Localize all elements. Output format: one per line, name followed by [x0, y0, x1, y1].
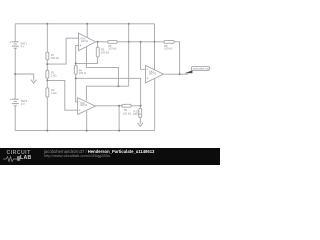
wire left column mid [14, 48, 16, 99]
caption line 1 [44, 149, 154, 154]
wire lower divider tap to op-amp3 plus [47, 80, 77, 110]
svg-text:100 kΩ: 100 kΩ [101, 50, 109, 54]
node rail / R3 [46, 130, 48, 132]
wire node B right to op-amp2 plus tap [76, 78, 141, 105]
svg-text:LM741: LM741 [80, 105, 88, 107]
node R9/R10 plus tap [140, 105, 142, 107]
CircuitLab logo [7, 150, 31, 156]
caption line 2 [44, 153, 110, 158]
svg-text:100 kΩ: 100 kΩ [133, 112, 141, 116]
wire R3 bottom lead to rail [46, 97, 48, 131]
wire R10 bottom lead [139, 118, 141, 122]
node rail / OA V- [86, 130, 88, 132]
wire op-amp2 output [163, 73, 188, 75]
wire R9 to plus-tap node [131, 105, 140, 107]
wire R4 bottom to node B [75, 74, 77, 78]
node OA2 output [179, 73, 181, 75]
svg-text:LM741: LM741 [149, 74, 157, 76]
svg-text:100 kΩ: 100 kΩ [123, 111, 131, 115]
svg-text:100 kΩ: 100 kΩ [108, 47, 116, 51]
resistor R3 [46, 88, 49, 97]
wire node B to op-amp3 minus [76, 78, 78, 102]
wire R8 right to output node [174, 42, 179, 74]
svg-text:1 kΩ: 1 kΩ [51, 91, 56, 95]
wire op-amp3(lower) V- stub to rail [86, 111, 88, 131]
node OA1 output / R5 [97, 41, 99, 43]
wire R1-R2 link [46, 60, 48, 71]
op-amp OA3 input polarity marks [147, 69, 149, 79]
node B [75, 77, 77, 79]
resistor R4 (node A to node B) [74, 66, 77, 75]
ground (battery midpoint) [31, 80, 36, 84]
wire R6 to R8 [117, 41, 164, 43]
wire top rail [15, 23, 154, 25]
node wire / minus tap crossing 1 [128, 41, 130, 43]
resistor R1 [46, 52, 49, 60]
wire junction down to bottom rail [118, 106, 120, 131]
resistor R2 [46, 70, 49, 78]
node divider mid upper [46, 63, 48, 65]
wire left column lower [14, 106, 16, 131]
wire divider mid tap to op-amp1 minus [47, 38, 78, 64]
op-amp OA1 [79, 33, 96, 51]
battery BAT2 [10, 99, 19, 106]
node divider mid lower [46, 79, 48, 81]
wire node A to R4 top [75, 63, 77, 65]
resistor R8 (feedback of OA2) [164, 40, 174, 43]
svg-text:200 Ω: 200 Ω [79, 71, 86, 75]
svg-text:9 V: 9 V [21, 45, 25, 49]
node wire / V+ stub crossing [154, 41, 156, 43]
wire op-amp2 V- stub to bottom rail [154, 79, 156, 131]
wire op-amp1 plus input stub [76, 45, 79, 63]
wire R1 top lead from rail [46, 24, 48, 52]
output flag [185, 67, 210, 74]
svg-text:100 kΩ: 100 kΩ [164, 47, 172, 51]
svg-text:LM741: LM741 [81, 41, 89, 43]
op-amp OA2 input polarity marks [79, 102, 81, 111]
wire supply branch from top rail down [128, 24, 130, 86]
svg-text:1 kΩ: 1 kΩ [51, 74, 56, 78]
wire bottom rail [15, 130, 155, 132]
ground (below R10) [138, 123, 143, 127]
wire plus-tap node to R10 top [139, 106, 141, 109]
node supply y86 junction [117, 85, 119, 87]
resistor R10 (to ground) [139, 108, 142, 117]
wire node A horizontal to R5 bottom [76, 57, 98, 63]
node A [75, 62, 77, 64]
wire op-amp2 minus tap [141, 42, 146, 70]
wire R5 top lead to output node [97, 42, 99, 47]
wire ground tap from battery midpoint [15, 74, 34, 78]
wire R2-R3 link [46, 78, 48, 88]
resistor R6 (series, OA1 out) [108, 40, 118, 43]
node top rail / OA1 V+ [86, 23, 88, 25]
node lower OA output / rail drop [118, 105, 120, 107]
svg-text:100 kΩ: 100 kΩ [51, 56, 59, 60]
wire op-amp2 V+ stub from rail corner [154, 24, 156, 70]
component labels [21, 38, 210, 116]
resistor R5 (feedback of OA1) [96, 47, 99, 57]
op-amp OA1 input polarity marks [80, 38, 82, 46]
op-amp OA3 [146, 65, 164, 83]
wire supply horizontal at y86 [86, 86, 128, 100]
op-amp OA2 (lower) [78, 98, 96, 115]
node top rail / supply branch [128, 23, 130, 25]
svg-text:9 V: 9 V [21, 102, 25, 106]
node rail / drop [118, 130, 120, 132]
wire op-amp3(lower) output [95, 105, 122, 107]
svg-text:particulate_out: particulate_out [193, 68, 209, 71]
junction dots [14, 23, 180, 132]
wire left column upper [14, 24, 16, 42]
footer bar [0, 148, 220, 165]
node minus tap [140, 41, 142, 43]
node battery midpoint [14, 73, 16, 75]
resistor R9 (series, lower OA out) [122, 104, 132, 107]
wire op-amp1 V+ stub from rail [86, 24, 88, 38]
node top rail / R1 [46, 23, 48, 25]
wire op-amp1 output [96, 41, 108, 43]
battery BAT1 [10, 41, 19, 48]
wire op-amp1 V- stub path [86, 47, 118, 86]
